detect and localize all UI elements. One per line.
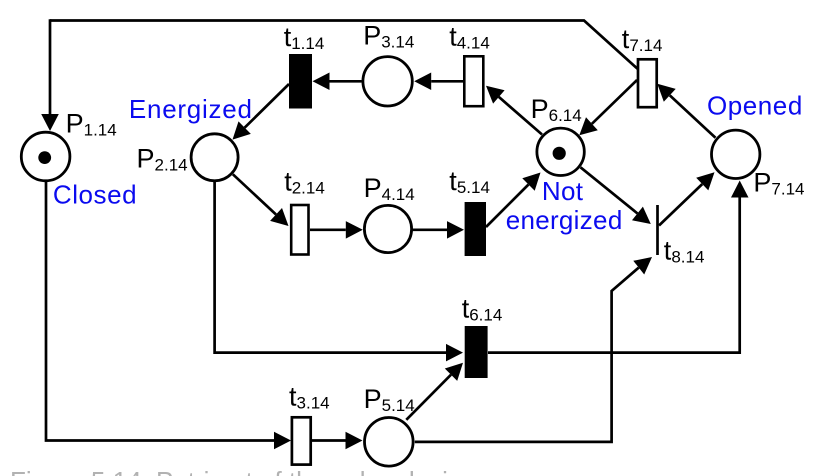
svg-text:P5.14: P5.14 <box>364 384 415 415</box>
svg-text:P4.14: P4.14 <box>364 173 415 204</box>
svg-text:t4.14: t4.14 <box>449 21 490 52</box>
svg-text:P7.14: P7.14 <box>753 168 804 199</box>
svg-text:P6.14: P6.14 <box>531 94 582 125</box>
svg-text:Figure 5.14. Petri net of the: Figure 5.14. Petri net of the valve devi… <box>10 466 475 476</box>
svg-text:t7.14: t7.14 <box>622 24 663 55</box>
svg-text:t3.14: t3.14 <box>289 382 330 413</box>
svg-text:P1.14: P1.14 <box>66 109 117 140</box>
svg-text:P2.14: P2.14 <box>137 144 188 175</box>
svg-text:t8.14: t8.14 <box>664 236 705 267</box>
svg-text:Not: Not <box>542 176 584 206</box>
svg-text:Opened: Opened <box>707 90 803 120</box>
svg-text:Closed: Closed <box>53 179 137 209</box>
svg-text:P3.14: P3.14 <box>363 21 414 52</box>
svg-text:t2.14: t2.14 <box>284 167 325 198</box>
svg-text:t1.14: t1.14 <box>284 22 325 53</box>
svg-text:Energized: Energized <box>129 94 253 124</box>
svg-text:t6.14: t6.14 <box>462 293 503 324</box>
svg-text:energized: energized <box>506 205 623 235</box>
svg-text:t5.14: t5.14 <box>449 166 490 197</box>
